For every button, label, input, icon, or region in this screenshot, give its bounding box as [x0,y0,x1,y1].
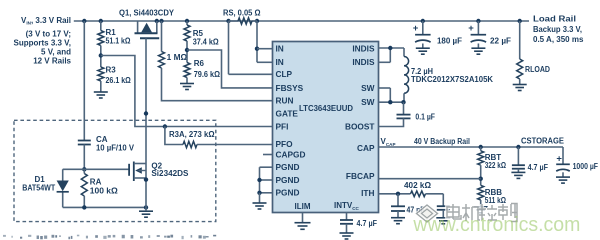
svg-text:CLP: CLP [276,69,293,79]
svg-text:VCAP: VCAP [381,137,396,147]
svg-text:ITH: ITH [361,188,374,198]
svg-text:0.1 µF: 0.1 µF [415,113,435,122]
svg-text:www.cntronics.com: www.cntronics.com [412,214,580,236]
svg-text:37.4 kΩ: 37.4 kΩ [193,37,220,46]
svg-text:RUN: RUN [276,96,294,106]
svg-text:R6: R6 [194,59,205,68]
svg-text:4.7 µF: 4.7 µF [357,219,378,228]
svg-text:CAPGD: CAPGD [276,149,306,159]
svg-text:100 kΩ: 100 kΩ [90,187,119,196]
svg-text:12 V Rails: 12 V Rails [33,56,71,65]
svg-text:26.1 kΩ: 26.1 kΩ [106,76,132,85]
svg-text:SW: SW [361,83,375,93]
svg-text:IN: IN [276,44,284,54]
svg-text:180 µF: 180 µF [437,37,462,46]
svg-text:PGND: PGND [276,175,300,185]
svg-text:RS, 0.05 Ω: RS, 0.05 Ω [223,9,261,18]
svg-text:PGND: PGND [276,162,300,172]
svg-text:Supports 3.3 V,: Supports 3.3 V, [14,39,72,48]
svg-text:+: + [468,23,474,34]
svg-text:4.7 µF: 4.7 µF [528,163,548,172]
svg-text:1 MΩ: 1 MΩ [167,53,188,62]
svg-text:GATE: GATE [276,108,299,118]
svg-text:0.5 A, 350 ms: 0.5 A, 350 ms [533,35,584,44]
svg-text:CSTORAGE: CSTORAGE [521,137,565,146]
svg-text:VIN, 3.3 V Rail: VIN, 3.3 V Rail [21,16,71,26]
svg-text:Q1, Si4403CDY: Q1, Si4403CDY [119,9,175,18]
svg-text:RA: RA [90,178,102,187]
svg-text:LTC3643EUUD: LTC3643EUUD [299,103,353,113]
svg-text:22 µF: 22 µF [490,37,511,46]
svg-text:BOOST: BOOST [345,121,375,131]
svg-text:IN: IN [276,57,284,67]
svg-text:(3 V to 17 V;: (3 V to 17 V; [26,30,71,39]
svg-text:ILIM: ILIM [295,202,311,211]
svg-text:R3A, 273 kΩ: R3A, 273 kΩ [169,130,215,139]
svg-text:RLOAD: RLOAD [525,65,550,74]
svg-text:10 µF/10 V: 10 µF/10 V [96,144,135,153]
svg-text:PGND: PGND [276,188,300,198]
svg-text:CAP: CAP [357,143,375,153]
svg-text:SW: SW [361,97,375,107]
svg-text:Backup 3.3 V,: Backup 3.3 V, [533,25,582,34]
svg-text:Si2342DS: Si2342DS [151,169,189,178]
svg-text:+: + [556,154,562,165]
svg-text:51.1 kΩ: 51.1 kΩ [106,37,132,46]
svg-text:TDKC2012X7S2A105K: TDKC2012X7S2A105K [411,75,493,84]
svg-text:BAT54WT: BAT54WT [22,184,55,193]
svg-text:R3: R3 [106,66,117,75]
svg-text:FBCAP: FBCAP [346,171,375,181]
svg-text:PFO: PFO [276,139,294,149]
svg-text:1000 µF: 1000 µF [573,162,598,171]
svg-text:INDIS: INDIS [352,44,375,54]
svg-text:402 kΩ: 402 kΩ [404,181,432,190]
svg-text:511 kΩ: 511 kΩ [485,196,507,205]
svg-text:FBSYS: FBSYS [276,83,304,93]
svg-text:322 kΩ: 322 kΩ [485,161,507,170]
svg-text:INDIS: INDIS [352,57,375,67]
svg-text:Load Rail: Load Rail [533,15,576,24]
svg-text:+: + [413,23,419,34]
svg-text:79.6 kΩ: 79.6 kΩ [194,70,221,79]
svg-text:40 V Backup Rail: 40 V Backup Rail [414,137,470,146]
svg-text:PFI: PFI [276,121,289,131]
